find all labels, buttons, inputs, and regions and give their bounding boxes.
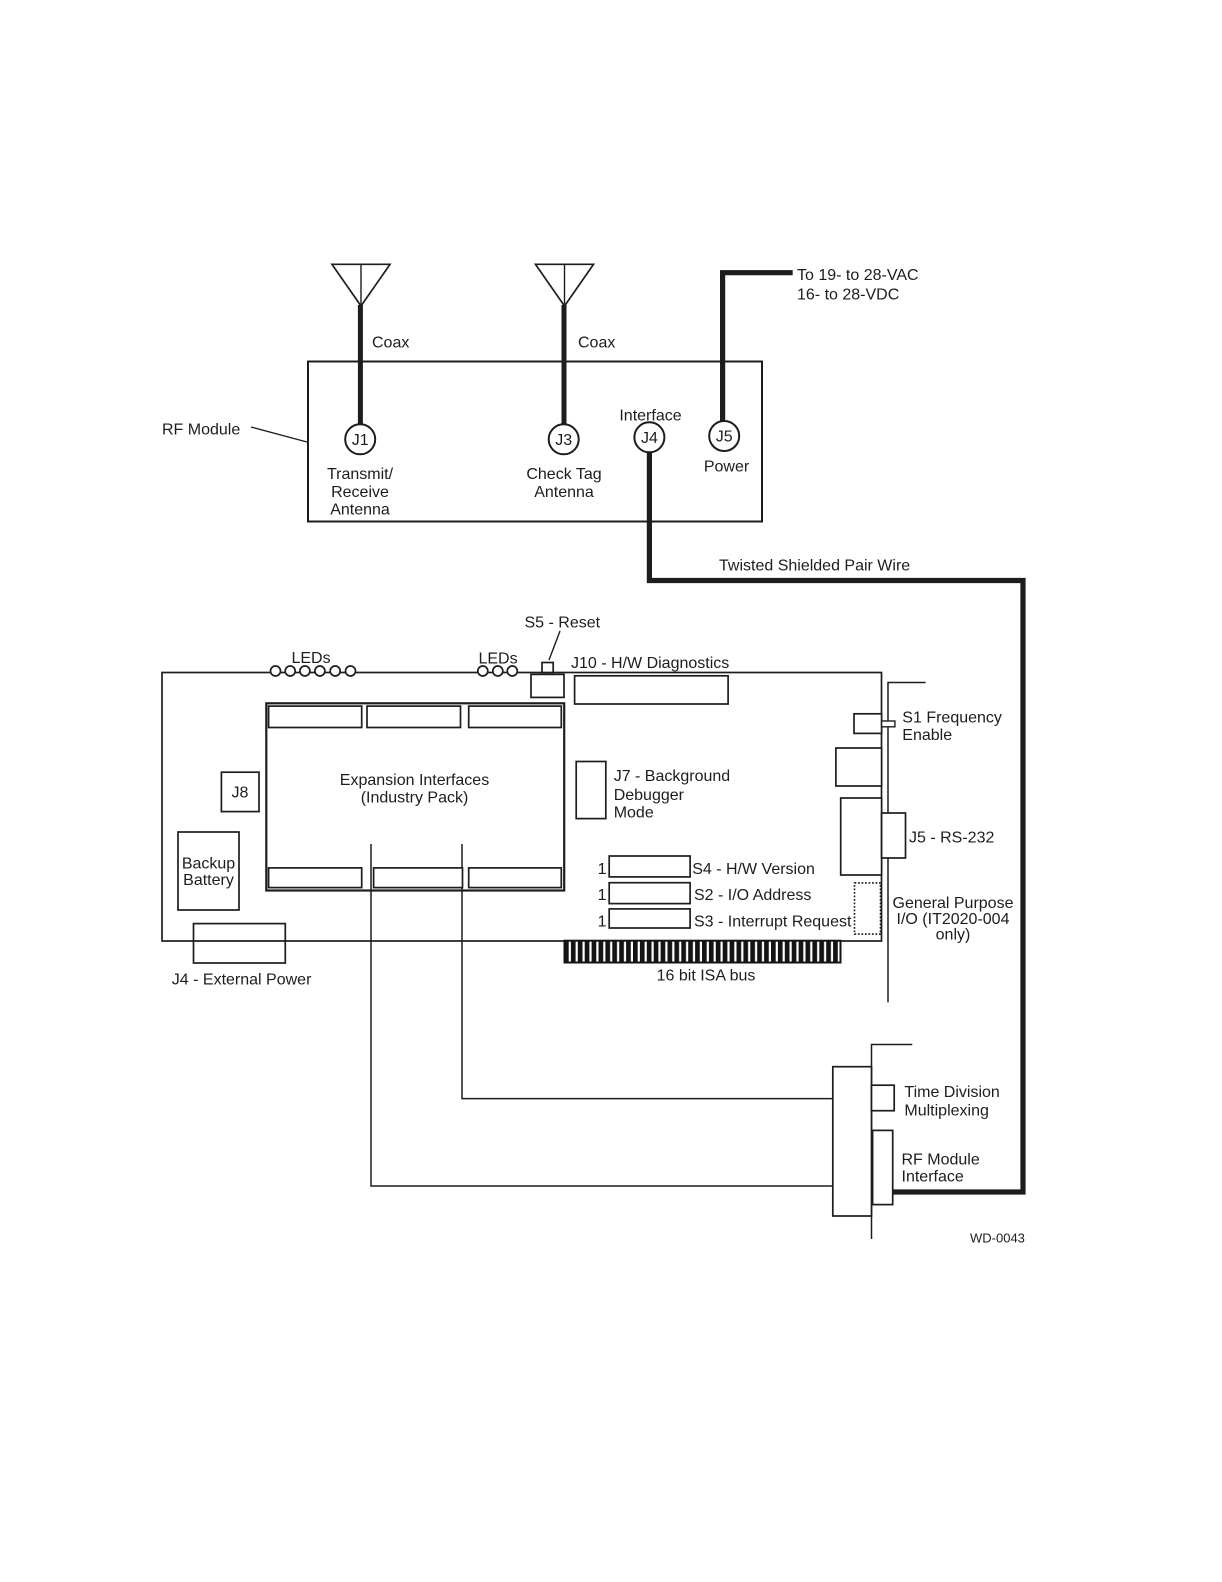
svg-text:J1: J1 (352, 432, 369, 449)
svg-text:Mode: Mode (614, 804, 654, 821)
svg-text:Coax: Coax (578, 335, 615, 352)
connector J5 RS-232 (through bracket) (882, 813, 906, 858)
wire power input to J5 (723, 273, 793, 423)
expansion top connector 2 (367, 706, 461, 727)
switch S4 (609, 856, 690, 877)
antenna A2 (check tag) (536, 264, 594, 306)
svg-text:(Industry Pack): (Industry Pack) (361, 790, 469, 807)
svg-text:Time Division: Time Division (904, 1084, 999, 1101)
antenna A1 (transmit/receive) (332, 264, 390, 306)
svg-text:Debugger: Debugger (614, 787, 685, 804)
svg-text:Power: Power (704, 459, 750, 476)
svg-text:only): only) (936, 927, 971, 944)
connector block below S5 (531, 674, 564, 697)
svg-text:WD-0043: WD-0043 (970, 1231, 1025, 1246)
svg-text:16 bit ISA bus: 16 bit ISA bus (657, 968, 756, 985)
svg-text:16- to 28-VDC: 16- to 28-VDC (797, 287, 899, 304)
LEDs right group (3) (478, 666, 518, 676)
wire coax A1 to J1 (358, 305, 363, 425)
LEDs left group (6) (271, 666, 356, 676)
connector time division multiplexing (872, 1085, 895, 1111)
svg-text:1: 1 (598, 861, 607, 878)
S1 stub through bracket (882, 721, 895, 727)
RF Module box (308, 362, 762, 522)
svg-text:J4: J4 (641, 430, 658, 447)
backup battery (178, 832, 239, 910)
connector J8 (221, 772, 259, 811)
svg-text:Antenna: Antenna (330, 502, 390, 519)
connector tall (serial port) (841, 798, 882, 875)
svg-text:Antenna: Antenna (534, 484, 594, 501)
wire expansion to TDM (right vertical) (462, 844, 833, 1099)
svg-text:Interface: Interface (902, 1168, 964, 1185)
connector J7 (576, 762, 606, 819)
connector (unlabeled, below S1) (836, 748, 882, 786)
svg-text:RF Module: RF Module (902, 1152, 980, 1169)
svg-text:Battery: Battery (183, 872, 234, 889)
svg-text:LEDs: LEDs (291, 650, 330, 667)
16 bit ISA bus connector (565, 941, 841, 963)
svg-text:J5 - RS-232: J5 - RS-232 (909, 830, 994, 847)
svg-text:Receive: Receive (331, 484, 389, 501)
switch S5 (square on board edge) (542, 663, 553, 673)
svg-text:RF Module: RF Module (162, 422, 240, 439)
expansion bottom connector 2 (374, 868, 463, 888)
wire twisted shielded pair J4 to RF module interface (649, 450, 1023, 1192)
svg-text:J10 - H/W Diagnostics: J10 - H/W Diagnostics (571, 655, 729, 672)
expansion bottom connector 1 (269, 868, 362, 888)
svg-text:Transmit/: Transmit/ (327, 466, 394, 483)
wire expansion to RF module interface (left vertical) (371, 844, 833, 1186)
expansion top connector 1 (269, 706, 362, 727)
svg-text:To 19- to 28-VAC: To 19- to 28-VAC (797, 267, 919, 284)
expansion bottom connector 3 (469, 868, 562, 888)
svg-text:General Purpose: General Purpose (893, 895, 1014, 912)
svg-text:1: 1 (598, 914, 607, 931)
svg-text:Backup: Backup (182, 856, 235, 873)
connector J4 (634, 422, 664, 452)
svg-text:S3 - Interrupt Request: S3 - Interrupt Request (694, 914, 852, 931)
svg-text:J7 - Background: J7 - Background (614, 768, 731, 785)
svg-text:Twisted Shielded Pair Wire: Twisted Shielded Pair Wire (719, 558, 910, 575)
svg-text:J8: J8 (232, 785, 249, 802)
wire coax A2 to J3 (562, 305, 567, 425)
connector J10 (575, 676, 729, 704)
switch S1 (854, 714, 882, 734)
connector block (bracket body) (833, 1067, 872, 1216)
svg-text:S4 - H/W Version: S4 - H/W Version (692, 861, 815, 878)
expansion interfaces box (266, 703, 564, 890)
svg-text:I/O (IT2020-004: I/O (IT2020-004 (897, 911, 1010, 928)
connector J1 (345, 424, 375, 454)
connector J5 (709, 421, 739, 451)
card bracket upper (888, 683, 926, 1003)
ISA board outline (162, 673, 882, 942)
svg-text:S5 - Reset: S5 - Reset (525, 615, 601, 632)
svg-text:J5: J5 (716, 429, 733, 446)
svg-text:LEDs: LEDs (478, 651, 517, 668)
switch S3 (609, 909, 690, 928)
board bottom edge through J4 connector (194, 940, 286, 942)
card bracket lower (872, 1045, 913, 1240)
svg-text:Enable: Enable (902, 727, 952, 744)
switch S2 (609, 883, 690, 904)
connector J4 external power (194, 924, 286, 963)
connector J3 (549, 424, 579, 454)
svg-text:Coax: Coax (372, 335, 409, 352)
svg-text:Multiplexing: Multiplexing (904, 1102, 988, 1119)
svg-text:J3: J3 (555, 432, 572, 449)
svg-text:J4 - External Power: J4 - External Power (172, 972, 312, 989)
svg-text:Check Tag: Check Tag (526, 466, 601, 483)
expansion top connector 3 (469, 706, 562, 727)
svg-text:S1 Frequency: S1 Frequency (902, 709, 1002, 726)
connector RF module interface (873, 1130, 893, 1204)
leader S5 (549, 631, 560, 660)
connector general purpose I/O (dotted) (855, 883, 881, 934)
svg-text:S2 - I/O Address: S2 - I/O Address (694, 887, 811, 904)
svg-text:1: 1 (598, 887, 607, 904)
svg-text:Expansion Interfaces: Expansion Interfaces (340, 772, 489, 789)
leader RF Module (251, 427, 307, 442)
